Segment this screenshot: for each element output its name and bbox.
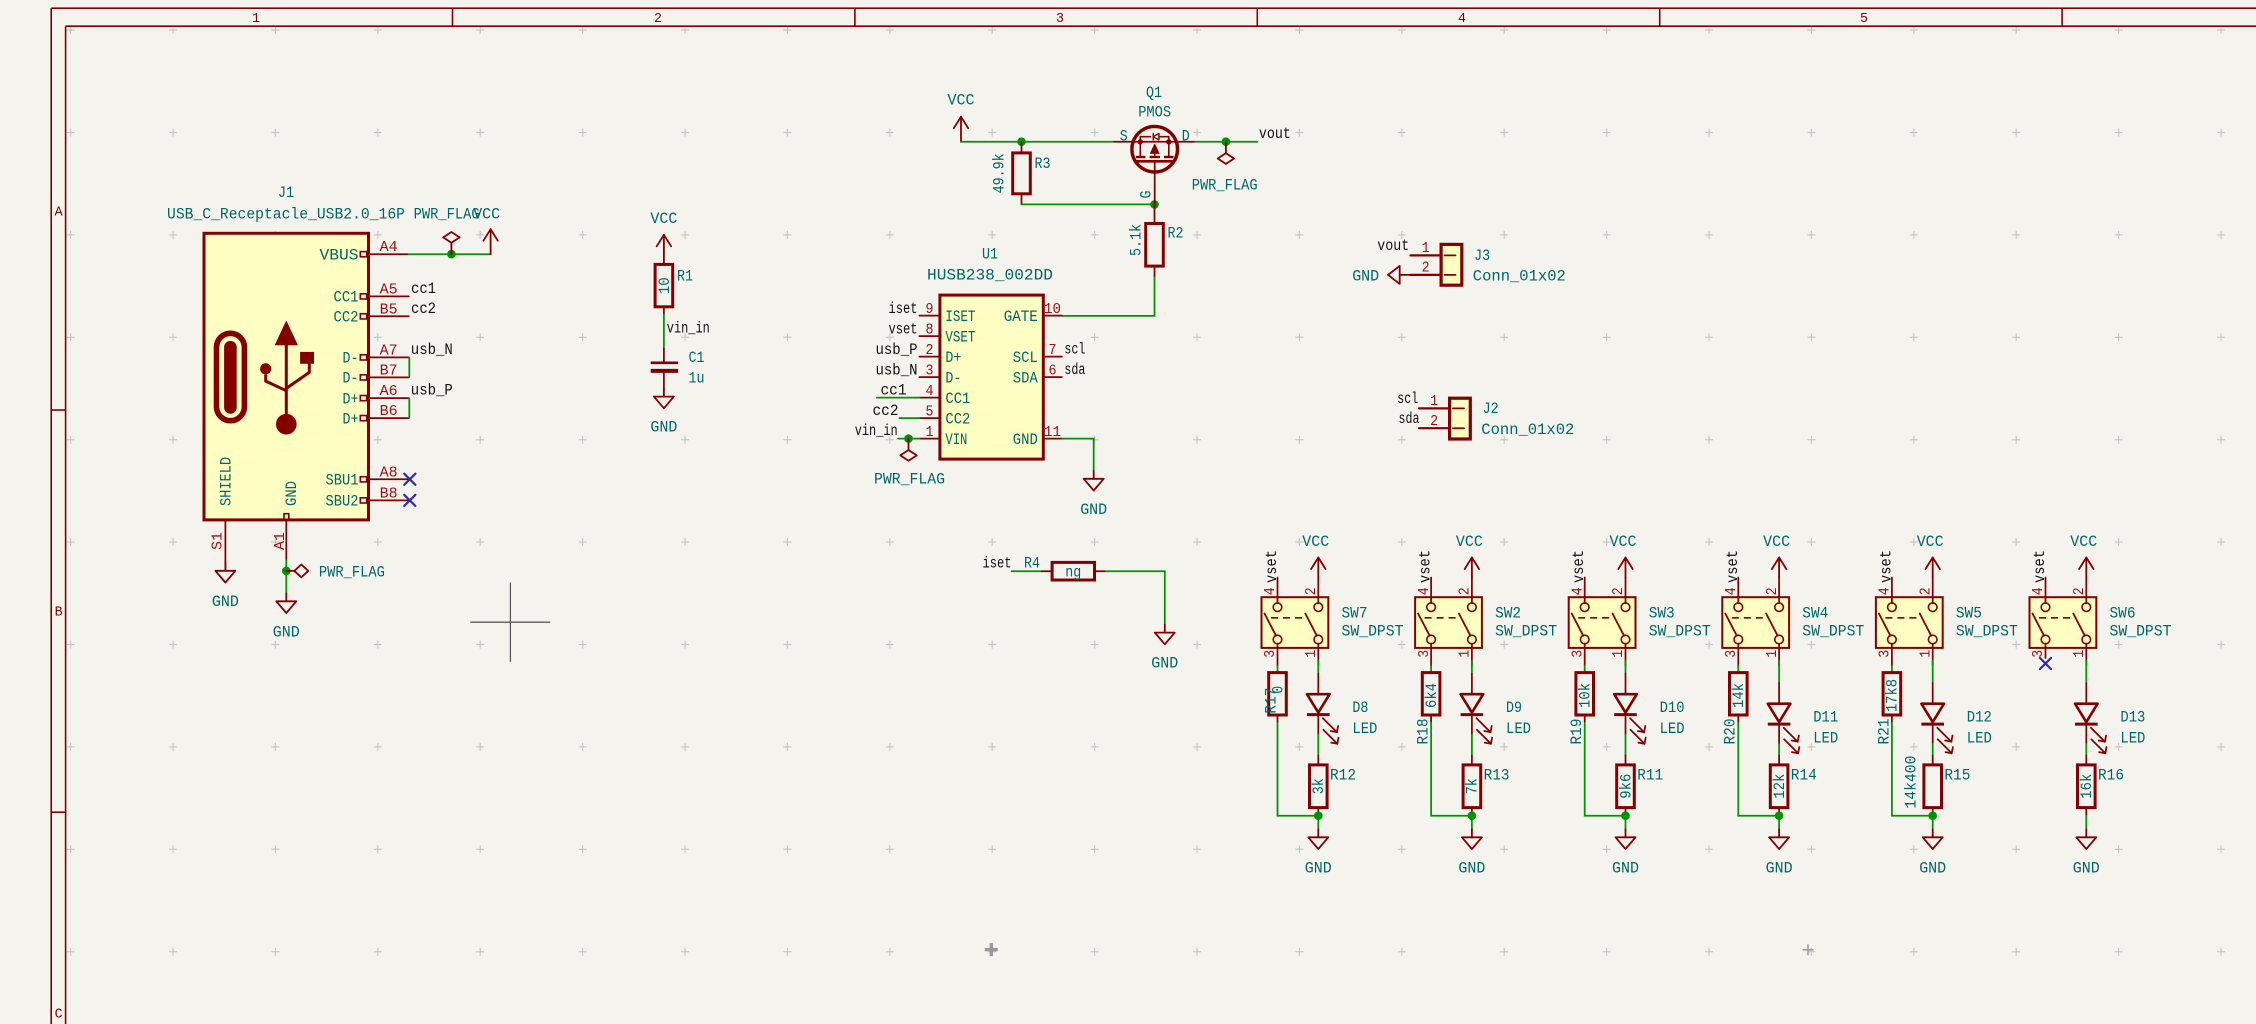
svg-text:SHIELD: SHIELD: [218, 457, 236, 506]
wire SW7 pin3 to R17: [1277, 666, 1279, 673]
svg-text:A5: A5: [380, 282, 398, 298]
junction below R15: [1928, 811, 1937, 820]
ground below R4: [1151, 625, 1178, 673]
wire iset to R4: [1012, 570, 1042, 572]
net label usb_P: [411, 382, 453, 400]
resistor R20 14k: [1722, 673, 1748, 745]
wire SW2 pin3 to R18: [1430, 666, 1432, 673]
J2 pin 2: [1419, 414, 1464, 430]
svg-text:3: 3: [1417, 650, 1433, 658]
SW3 value SW_DPST: [1649, 623, 1711, 641]
wire SW4 pin1 to D11: [1778, 661, 1780, 683]
LED D13: [2075, 683, 2145, 753]
svg-text:1: 1: [2072, 650, 2088, 658]
LED D12: [1921, 683, 1991, 753]
U1 pin 7 SCL: [1013, 343, 1062, 367]
svg-text:PWR_FLAG: PWR_FLAG: [1192, 177, 1258, 195]
J1 pin B5 CC2: [334, 302, 409, 326]
transistor Q1 PMOS: [1114, 84, 1195, 204]
wire R21 to ground rail: [1892, 722, 1933, 816]
SW6 pin 3: [2031, 644, 2047, 659]
svg-text:1: 1: [1918, 650, 1934, 658]
svg-text:GND: GND: [650, 419, 677, 437]
U1 pin 6 SDA: [1013, 363, 1062, 387]
svg-text:usb_N: usb_N: [876, 361, 918, 379]
svg-text:R12: R12: [1330, 767, 1356, 785]
J1 pin S1 SHIELD: [211, 457, 236, 571]
svg-text:U1: U1: [982, 246, 998, 264]
net label cc2: [411, 300, 436, 318]
ground below C1: [650, 389, 677, 437]
svg-text:A4: A4: [380, 240, 398, 256]
resistor R4 ng: [1024, 555, 1105, 582]
SW6 pin 1: [2072, 644, 2088, 666]
wire R19 to ground rail: [1585, 722, 1626, 816]
svg-text:R17: R17: [1263, 688, 1281, 714]
wire joining D- pins A7 B7: [408, 358, 410, 377]
svg-text:10: 10: [656, 277, 674, 294]
wire D8 to R12: [1317, 735, 1319, 756]
svg-text:1: 1: [252, 12, 260, 27]
svg-text:D-: D-: [945, 369, 961, 387]
wire J1 A1 to ground: [285, 560, 287, 593]
svg-text:C: C: [55, 1008, 63, 1023]
junction below R13: [1468, 811, 1477, 820]
svg-text:5: 5: [926, 404, 934, 420]
drawing sheet origin marker: [1803, 944, 1814, 955]
svg-text:3: 3: [1724, 650, 1740, 658]
connector J2 Conn_01x02 body: [1450, 398, 1471, 439]
svg-text:7: 7: [1049, 343, 1057, 359]
svg-text:GND: GND: [273, 623, 300, 641]
power flag at U1 VIN: [874, 439, 945, 489]
power symbol VCC at SW6: [2070, 533, 2097, 578]
ground at J1 A1: [273, 593, 300, 641]
svg-text:SW_DPST: SW_DPST: [2110, 623, 2172, 641]
svg-text:LED: LED: [1813, 730, 1838, 748]
svg-text:GND: GND: [1080, 501, 1107, 519]
U1 pin 10 GATE: [1004, 302, 1062, 326]
svg-text:9: 9: [926, 302, 934, 318]
svg-text:SW_DPST: SW_DPST: [1802, 623, 1864, 641]
resistor R12 3k: [1310, 756, 1357, 816]
svg-text:B5: B5: [380, 302, 398, 318]
J1 pin A6 D+: [343, 384, 409, 408]
svg-text:R13: R13: [1484, 767, 1510, 785]
svg-text:5: 5: [1860, 12, 1868, 27]
svg-text:6k4: 6k4: [1423, 683, 1441, 708]
svg-text:3: 3: [1570, 650, 1586, 658]
wire VCC to Q1 source: [961, 141, 1114, 143]
svg-text:R19: R19: [1568, 719, 1586, 745]
svg-text:SW7: SW7: [1342, 605, 1368, 623]
svg-text:D+: D+: [945, 349, 961, 367]
junction below R12: [1314, 811, 1323, 820]
svg-text:2: 2: [1422, 261, 1430, 277]
resistor R18 6k4: [1415, 673, 1441, 745]
SW7 pin 2: [1304, 578, 1320, 604]
no-connect at SBU2: [404, 495, 415, 506]
J1 reference J1: [278, 184, 294, 202]
net label scl at J2: [1397, 390, 1418, 408]
svg-text:3: 3: [2031, 650, 2047, 658]
svg-text:cc1: cc1: [881, 382, 907, 400]
net label sda at U1: [1064, 361, 1085, 379]
svg-text:3: 3: [1263, 650, 1279, 658]
wire SW5 pin3 to R21: [1891, 666, 1893, 673]
SW6 pin 4: [2031, 578, 2047, 604]
wire R3 to Q1 gate node: [1022, 203, 1155, 205]
svg-text:sda: sda: [1064, 361, 1085, 379]
svg-text:D+: D+: [343, 390, 359, 408]
net label vout at J3: [1377, 237, 1409, 255]
svg-text:LED: LED: [1967, 730, 1992, 748]
SW2 pin 3: [1417, 644, 1433, 666]
no-connect at SBU1: [404, 474, 415, 485]
ground at U1 GND: [1080, 471, 1107, 519]
switch SW4 SW_DPST body: [1722, 597, 1789, 648]
svg-text:VSET: VSET: [945, 328, 975, 346]
U1 pin 1 VIN: [919, 425, 967, 449]
SW3 reference: [1649, 605, 1675, 623]
svg-text:2: 2: [654, 12, 662, 27]
wire D10 to R11: [1625, 735, 1627, 756]
ground below R12: [1317, 816, 1319, 830]
wire cc1 stub at U1: [877, 397, 920, 399]
U1 reference U1: [982, 246, 998, 264]
SW7 pin 1: [1304, 644, 1320, 666]
U1 pin 8 VSET: [919, 322, 975, 346]
svg-text:D: D: [1182, 128, 1190, 146]
svg-text:GND: GND: [1013, 431, 1038, 449]
svg-text:PWR_FLAG: PWR_FLAG: [414, 206, 480, 224]
resistor R21 17k8: [1875, 673, 1901, 745]
svg-text:R1: R1: [677, 268, 693, 286]
capacitor C1: [651, 348, 705, 388]
svg-text:G: G: [1138, 191, 1156, 199]
LED D8: [1307, 674, 1377, 744]
wire joining D+ pins A6 B6: [408, 398, 410, 417]
SW7 reference: [1342, 605, 1368, 623]
U1 pin 11 GND: [1013, 425, 1062, 449]
net label vset at SW5: [1877, 550, 1895, 583]
SW4 reference: [1802, 605, 1828, 623]
svg-text:D8: D8: [1352, 699, 1368, 717]
svg-text:R20: R20: [1722, 719, 1740, 745]
J1 pin A5 CC1: [334, 282, 409, 306]
svg-text:VCC: VCC: [1610, 533, 1637, 551]
net label usb_P at U1: [876, 341, 918, 359]
SW3 pin 3: [1570, 644, 1586, 666]
svg-text:R4: R4: [1024, 555, 1040, 573]
switch SW6 SW_DPST body: [2030, 597, 2097, 648]
wire vin_in R1 to C1: [663, 315, 665, 349]
svg-text:2: 2: [2072, 587, 2088, 595]
SW5 pin 4: [1878, 578, 1894, 604]
SW5 reference: [1956, 605, 1982, 623]
svg-text:HUSB238_002DD: HUSB238_002DD: [927, 267, 1053, 285]
svg-text:VCC: VCC: [1917, 533, 1944, 551]
svg-text:SW_DPST: SW_DPST: [1342, 623, 1404, 641]
power flag on vout: [1192, 142, 1258, 195]
svg-text:LED: LED: [2120, 730, 2145, 748]
svg-text:SW_DPST: SW_DPST: [1956, 623, 2018, 641]
svg-text:ISET: ISET: [945, 308, 975, 326]
svg-text:10: 10: [1044, 302, 1061, 318]
wire cc2 stub at U1: [900, 417, 920, 419]
power symbol VCC at SW5: [1917, 533, 1944, 578]
net label cc1 at U1: [881, 382, 907, 400]
svg-text:B: B: [55, 606, 63, 621]
net label iset at R4: [983, 555, 1012, 573]
SW2 pin 4: [1417, 578, 1433, 604]
svg-text:7k: 7k: [1464, 778, 1482, 794]
svg-text:1u: 1u: [689, 369, 705, 387]
svg-text:PWR_FLAG: PWR_FLAG: [874, 471, 945, 489]
svg-text:B6: B6: [380, 404, 398, 420]
resistor R14 12k: [1770, 756, 1817, 816]
SW2 pin 1: [1458, 644, 1474, 666]
net label cc2 at U1: [873, 402, 899, 420]
switch SW3 SW_DPST body: [1569, 597, 1636, 648]
junction at J1 A1: [282, 567, 291, 576]
crosshair cursor: [470, 583, 550, 662]
svg-text:CC2: CC2: [334, 309, 359, 327]
svg-text:R21: R21: [1875, 719, 1893, 745]
svg-text:PWR_FLAG: PWR_FLAG: [319, 563, 385, 581]
net label sda at J2: [1399, 410, 1420, 428]
SW4 pin 4: [1724, 578, 1740, 604]
svg-text:14k: 14k: [1730, 683, 1748, 708]
power symbol VCC at SW2: [1456, 533, 1483, 578]
svg-text:D12: D12: [1967, 709, 1992, 727]
wire VBUS to VCC: [409, 253, 491, 255]
svg-text:VCC: VCC: [1456, 533, 1483, 551]
ground below R14: [1778, 816, 1780, 830]
net label vset at U1: [889, 320, 918, 338]
IC U1 HUSB238_002DD body: [940, 295, 1043, 459]
svg-text:4: 4: [1417, 587, 1433, 595]
svg-text:4: 4: [1878, 587, 1894, 595]
switch SW2 SW_DPST body: [1415, 597, 1482, 648]
SW7 value SW_DPST: [1342, 623, 1404, 641]
wire D11 to R14: [1778, 744, 1780, 756]
wire D13 to R16: [2085, 744, 2087, 756]
svg-text:VCC: VCC: [948, 92, 975, 110]
resistor R3 49.9k: [990, 142, 1050, 205]
svg-text:usb_P: usb_P: [876, 341, 918, 359]
svg-text:3k: 3k: [1310, 778, 1328, 794]
svg-text:USB_C_Receptacle_USB2.0_16P: USB_C_Receptacle_USB2.0_16P: [167, 206, 405, 224]
svg-text:Q1: Q1: [1146, 84, 1162, 102]
svg-text:1: 1: [1458, 650, 1474, 658]
svg-text:R3: R3: [1035, 155, 1051, 173]
LED D10: [1614, 674, 1684, 744]
svg-text:cc1: cc1: [411, 280, 436, 298]
svg-text:GND: GND: [1458, 859, 1485, 877]
svg-text:A: A: [55, 206, 64, 221]
wire R2 to U1 GATE: [1062, 277, 1155, 316]
svg-text:1: 1: [1611, 650, 1627, 658]
svg-text:4: 4: [1724, 587, 1740, 595]
svg-text:GND: GND: [1352, 267, 1379, 285]
svg-text:cc2: cc2: [873, 402, 899, 420]
svg-text:R16: R16: [2098, 767, 2124, 785]
svg-text:cc2: cc2: [411, 300, 436, 318]
LED D11: [1768, 683, 1838, 753]
U1 pin 5 CC2: [919, 404, 970, 428]
resistor R1: [655, 260, 693, 315]
svg-text:SW3: SW3: [1649, 605, 1675, 623]
svg-text:6: 6: [1049, 363, 1057, 379]
svg-text:vin_in: vin_in: [855, 422, 898, 440]
wire SW2 pin1 to D9: [1471, 661, 1473, 674]
power symbol VCC at SW4: [1763, 533, 1790, 578]
svg-text:J3: J3: [1474, 247, 1490, 265]
svg-text:2: 2: [1918, 587, 1934, 595]
wire SW5 pin1 to D12: [1932, 661, 1934, 683]
junction on vout wire: [1222, 137, 1231, 146]
svg-text:D9: D9: [1506, 699, 1522, 717]
svg-text:A8: A8: [380, 465, 398, 481]
svg-text:2: 2: [1765, 587, 1781, 595]
svg-text:C1: C1: [689, 349, 705, 367]
wire SW3 pin1 to D10: [1625, 661, 1627, 674]
SW7 pin 3: [1263, 644, 1279, 666]
svg-text:11: 11: [1044, 425, 1061, 441]
svg-text:3: 3: [926, 363, 934, 379]
resistor R11 9k6: [1617, 756, 1664, 816]
switch SW5 SW_DPST body: [1876, 597, 1943, 648]
connector J3 Conn_01x02 body: [1441, 244, 1462, 285]
net label vin_in at U1: [855, 422, 898, 440]
junction below R14: [1775, 811, 1784, 820]
ground at J3 pin 2: [1352, 266, 1410, 286]
ground below R16: [2085, 816, 2087, 830]
svg-text:SCL: SCL: [1013, 349, 1038, 367]
svg-text:14k400: 14k400: [1902, 756, 1920, 809]
svg-text:1: 1: [1430, 394, 1438, 410]
svg-text:VIN: VIN: [945, 431, 967, 449]
svg-text:2: 2: [1304, 587, 1320, 595]
SW6 value SW_DPST: [2110, 623, 2172, 641]
wire R18 to ground rail: [1431, 722, 1472, 816]
net label usb_N: [411, 341, 453, 359]
svg-text:1: 1: [926, 425, 934, 441]
svg-text:GND: GND: [1919, 859, 1946, 877]
svg-text:2: 2: [1611, 587, 1627, 595]
svg-text:vout: vout: [1377, 237, 1409, 255]
svg-text:vout: vout: [1259, 125, 1291, 143]
SW6 reference: [2110, 605, 2136, 623]
J3 reference: [1474, 247, 1490, 265]
SW5 pin 3: [1878, 644, 1894, 666]
svg-text:SDA: SDA: [1013, 369, 1039, 387]
wire vin_in stub at U1: [898, 438, 919, 440]
svg-text:GND: GND: [1766, 859, 1793, 877]
SW2 reference: [1495, 605, 1521, 623]
svg-text:3: 3: [1878, 650, 1894, 658]
svg-text:R18: R18: [1415, 719, 1433, 745]
J1 pin B6 D+: [343, 404, 409, 428]
SW2 value SW_DPST: [1495, 623, 1557, 641]
ground below R15: [1932, 816, 1934, 830]
J1 pin B7 D-: [343, 363, 409, 387]
svg-text:4: 4: [1570, 587, 1586, 595]
svg-text:scl: scl: [1064, 340, 1085, 358]
svg-text:B8: B8: [380, 486, 398, 502]
svg-text:VCC: VCC: [650, 210, 677, 228]
SW6 pin 2: [2072, 578, 2088, 604]
junction on VBUS wire: [447, 250, 456, 259]
svg-text:8: 8: [926, 322, 934, 338]
svg-text:A6: A6: [380, 384, 398, 400]
svg-text:2: 2: [1458, 587, 1474, 595]
junction VCC rail at R3: [1017, 137, 1026, 146]
J1 pin A7 D-: [343, 343, 409, 367]
ground below R13: [1471, 816, 1473, 830]
svg-text:17k8: 17k8: [1884, 679, 1902, 712]
net label vin_in: [667, 319, 710, 337]
svg-text:GND: GND: [283, 481, 301, 506]
svg-text:GND: GND: [1612, 859, 1639, 877]
power symbol VCC at Q1 source rail: [948, 92, 975, 142]
svg-text:usb_N: usb_N: [411, 341, 453, 359]
resistor R19 10k: [1568, 673, 1594, 745]
SW4 value SW_DPST: [1802, 623, 1864, 641]
J1 USB logo: [217, 322, 314, 435]
U1 value HUSB238_002DD: [927, 267, 1053, 285]
svg-text:2: 2: [1430, 414, 1438, 430]
svg-text:D11: D11: [1813, 709, 1838, 727]
svg-text:12k: 12k: [1771, 774, 1789, 799]
net label usb_N at U1: [876, 361, 918, 379]
J3 pin 2: [1411, 261, 1456, 277]
junction gate node: [1150, 200, 1159, 209]
wire R17 to ground rail: [1278, 722, 1319, 816]
wire R4 to ground: [1105, 571, 1165, 624]
svg-text:16k: 16k: [2078, 774, 2096, 799]
svg-text:R14: R14: [1791, 767, 1817, 785]
svg-text:A1: A1: [273, 532, 289, 550]
svg-text:4: 4: [1458, 12, 1466, 27]
svg-text:4: 4: [1263, 587, 1279, 595]
svg-text:VBUS: VBUS: [320, 247, 359, 265]
net label vset at SW6: [2031, 550, 2049, 583]
power symbol VCC above R1: [650, 210, 677, 260]
svg-text:GND: GND: [1151, 655, 1178, 673]
svg-text:VCC: VCC: [1763, 533, 1790, 551]
svg-text:S: S: [1120, 128, 1128, 146]
resistor R17 0: [1263, 673, 1288, 723]
J2 pin 1: [1419, 394, 1464, 410]
svg-text:vin_in: vin_in: [667, 319, 710, 337]
svg-text:GND: GND: [1305, 859, 1332, 877]
svg-text:D+: D+: [343, 410, 359, 428]
svg-text:GND: GND: [212, 593, 239, 611]
svg-text:SW2: SW2: [1495, 605, 1521, 623]
net label iset at U1: [889, 300, 918, 318]
svg-text:iset: iset: [889, 300, 918, 318]
svg-text:Conn_01x02: Conn_01x02: [1473, 268, 1566, 286]
power flag on VBUS: [414, 206, 480, 255]
svg-text:ng: ng: [1065, 564, 1081, 582]
SW7 pin 4: [1263, 578, 1279, 604]
resistor R15 14k400: [1902, 756, 1970, 816]
svg-text:CC1: CC1: [334, 289, 359, 307]
svg-text:SBU2: SBU2: [326, 493, 359, 511]
svg-text:D-: D-: [343, 350, 359, 368]
